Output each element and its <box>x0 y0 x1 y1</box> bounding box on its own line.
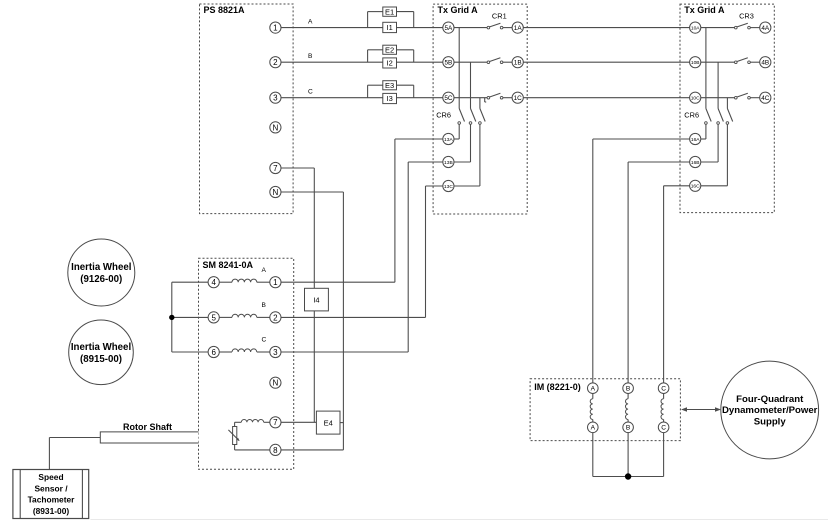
svg-text:C: C <box>661 386 666 393</box>
svg-text:CR6: CR6 <box>436 111 451 120</box>
svg-text:N: N <box>273 188 279 197</box>
svg-text:4A: 4A <box>761 25 770 32</box>
svg-text:I2: I2 <box>387 59 393 68</box>
svg-text:1A: 1A <box>514 25 523 32</box>
svg-text:SM 8241-0A: SM 8241-0A <box>203 260 254 270</box>
svg-text:10A: 10A <box>691 25 700 31</box>
svg-text:16A: 16A <box>691 137 700 143</box>
svg-text:Inertia Wheel: Inertia Wheel <box>71 262 131 273</box>
svg-text:N: N <box>273 123 279 132</box>
svg-text:13C: 13C <box>444 184 453 190</box>
svg-text:5C: 5C <box>444 95 453 102</box>
svg-text:Rotor Shaft: Rotor Shaft <box>123 422 172 432</box>
svg-text:2: 2 <box>273 313 278 322</box>
svg-text:CR6: CR6 <box>684 111 699 120</box>
svg-text:Dynamometer/Power: Dynamometer/Power <box>722 405 818 416</box>
svg-text:A: A <box>262 267 267 274</box>
svg-text:I1: I1 <box>387 23 393 32</box>
svg-text:1C: 1C <box>514 95 523 102</box>
svg-text:IM (8221-0): IM (8221-0) <box>534 382 581 392</box>
svg-text:C: C <box>308 89 313 96</box>
svg-text:2: 2 <box>273 58 278 67</box>
svg-text:3: 3 <box>273 348 278 357</box>
svg-text:E3: E3 <box>385 81 394 90</box>
svg-text:3: 3 <box>273 94 278 103</box>
svg-text:I3: I3 <box>387 94 393 103</box>
svg-text:5: 5 <box>211 313 216 322</box>
svg-text:10B: 10B <box>691 60 700 66</box>
svg-text:A: A <box>591 425 596 432</box>
svg-text:A: A <box>308 18 313 25</box>
svg-text:1: 1 <box>273 278 278 287</box>
svg-text:(8915-00): (8915-00) <box>80 354 122 365</box>
svg-text:5B: 5B <box>444 60 452 67</box>
svg-text:(8931-00): (8931-00) <box>33 506 70 516</box>
svg-text:1: 1 <box>273 23 278 32</box>
svg-text:6: 6 <box>211 348 216 357</box>
svg-text:Supply: Supply <box>754 417 787 428</box>
svg-text:C: C <box>661 425 666 432</box>
svg-text:B: B <box>626 425 631 432</box>
svg-text:C: C <box>262 337 267 344</box>
svg-text:4B: 4B <box>761 60 769 67</box>
svg-text:E2: E2 <box>385 45 394 54</box>
svg-text:B: B <box>262 302 267 309</box>
svg-text:13B: 13B <box>444 160 453 166</box>
svg-text:Four-Quadrant: Four-Quadrant <box>736 394 804 405</box>
svg-text:Tx Grid A: Tx Grid A <box>438 5 479 15</box>
svg-text:Tx Grid A: Tx Grid A <box>684 5 725 15</box>
svg-text:5A: 5A <box>444 25 453 32</box>
svg-text:4C: 4C <box>761 95 770 102</box>
svg-text:CR3: CR3 <box>739 12 754 21</box>
svg-text:7: 7 <box>273 418 278 427</box>
svg-text:(9126-00): (9126-00) <box>80 274 122 285</box>
svg-text:Inertia Wheel: Inertia Wheel <box>71 342 131 353</box>
svg-text:E4: E4 <box>324 418 333 427</box>
svg-text:A: A <box>591 386 596 393</box>
svg-text:Sensor /: Sensor / <box>34 483 68 493</box>
svg-text:Tachometer: Tachometer <box>28 495 76 505</box>
svg-text:CR1: CR1 <box>492 12 507 21</box>
svg-text:E1: E1 <box>385 7 394 16</box>
svg-text:B: B <box>308 53 313 60</box>
svg-text:I4: I4 <box>313 295 319 304</box>
svg-text:B: B <box>626 386 631 393</box>
svg-text:13A: 13A <box>444 137 453 143</box>
svg-text:Speed: Speed <box>38 472 63 482</box>
svg-text:10C: 10C <box>691 95 700 101</box>
svg-text:PS 8821A: PS 8821A <box>204 5 246 15</box>
svg-text:7: 7 <box>273 164 278 173</box>
svg-text:1B: 1B <box>514 60 522 67</box>
svg-text:16C: 16C <box>691 184 700 190</box>
svg-text:8: 8 <box>273 446 278 455</box>
svg-text:N: N <box>273 379 279 388</box>
svg-text:4: 4 <box>211 278 216 287</box>
svg-text:16B: 16B <box>691 160 700 166</box>
